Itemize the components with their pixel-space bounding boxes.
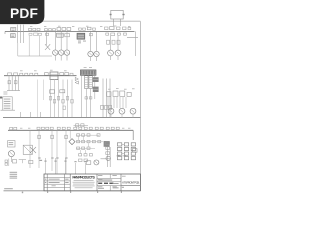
svg-text:KT-5 FRONT PCB.: KT-5 FRONT PCB. — [122, 180, 140, 184]
capacitor C28 below bus C — [76, 124, 79, 127]
transistor Q2 — [53, 50, 58, 55]
resistor R28 — [113, 91, 118, 96]
transistor Q11 — [130, 108, 136, 114]
J3 label specks — [3, 91, 7, 94]
diode D2 — [45, 73, 49, 76]
capacitor C3 — [38, 33, 41, 35]
info cells row lines — [97, 177, 121, 179]
resistor R6 — [53, 29, 56, 31]
logic mesh row 1 — [77, 134, 80, 136]
net tick — [39, 160, 42, 161]
wire M1 down — [10, 157, 12, 162]
Q9-Q11 leads to bus C — [110, 114, 112, 117]
bottom row ticks — [44, 161, 46, 162]
revision table entries — [49, 178, 60, 181]
resistor R42 — [84, 127, 87, 129]
capacitor C9 — [89, 33, 92, 35]
capacitor C12 — [118, 33, 121, 35]
resistor R23 — [105, 105, 108, 109]
resistor R49 — [12, 160, 16, 163]
resistor R2 — [33, 28, 36, 30]
frame bottom-left text — [4, 188, 13, 189]
resistor R43 — [89, 127, 92, 129]
schematic frame border right — [139, 21, 141, 191]
transistor Q9 — [108, 108, 114, 114]
left lower sub-circuit box — [8, 141, 15, 147]
motor M1 (circle) — [8, 151, 14, 157]
U1 label above — [84, 66, 87, 69]
wire drop Q-row 1 — [45, 31, 47, 45]
drawing number bold text — [98, 183, 102, 184]
capacitor C11 — [111, 33, 115, 36]
left sub-circuit wires — [8, 76, 10, 90]
company address lines — [74, 179, 94, 182]
title block bottom ticks — [47, 191, 48, 192]
right cluster labels — [108, 88, 111, 91]
wire column B — [20, 25, 22, 43]
capacitor C14 — [107, 40, 110, 44]
transistor Q4 — [64, 50, 69, 55]
relay K1 — [23, 145, 32, 154]
wire columns to title block — [45, 158, 47, 174]
power bus net VCC (top horizontal bus) — [5, 30, 135, 32]
label box NOTE1 — [11, 28, 16, 32]
J2 side box — [132, 149, 137, 153]
resistor R33 — [37, 127, 40, 129]
resistor R44 — [95, 127, 98, 129]
wire columns right of U1 — [102, 79, 104, 118]
wire drop from C3 cluster — [39, 36, 41, 56]
wire drop from C1 cluster — [28, 36, 30, 56]
column polarity ticks — [38, 158, 40, 159]
capacitor C31 — [51, 135, 54, 138]
resistor R8 — [83, 28, 86, 30]
capacitor C17 — [60, 73, 64, 76]
resistor R36 — [50, 127, 53, 129]
revision narrow column marks — [45, 178, 46, 181]
IC U4 (driver block) — [77, 33, 85, 39]
resistor R39 — [67, 127, 70, 129]
wire drop far right — [135, 31, 137, 56]
capacitor C22 — [53, 99, 55, 103]
capacitor C19 — [8, 81, 11, 84]
capacitor C18 — [65, 73, 69, 76]
wire column C — [23, 25, 25, 43]
resistor R45 — [100, 127, 103, 129]
dark node blob — [104, 141, 110, 147]
resistor R3 — [37, 28, 40, 30]
resistor R31 — [10, 127, 13, 129]
capacitor C13 — [124, 33, 127, 35]
title cell small label — [122, 175, 126, 178]
capacitor C8 — [65, 33, 70, 36]
notes text block — [10, 171, 18, 174]
Q7-Q8 emitter leads — [110, 56, 112, 60]
bottom row capacitor C34 — [5, 160, 8, 162]
bus C stub ticks left — [20, 112, 22, 117]
transistor Q8 — [115, 50, 121, 56]
wire net W2 — [7, 90, 20, 92]
logic mesh row 5 — [79, 159, 82, 162]
capacitor C4 — [57, 28, 61, 31]
J2 grid middle links — [122, 143, 125, 145]
wire net W4 — [101, 158, 111, 160]
resistor R32 — [14, 127, 17, 129]
capacitor C25 — [66, 96, 68, 100]
resistor R10 — [105, 27, 108, 30]
diode D1 — [87, 27, 91, 30]
resistor R25 — [50, 90, 55, 93]
title block outer border — [44, 174, 140, 191]
transistor Q1 (crossed symbol) — [45, 44, 50, 50]
resistor R35 — [46, 127, 49, 129]
capacitor C24 — [62, 99, 64, 103]
capacitor C7 — [46, 33, 49, 35]
diode bridge D4 (diamond) — [69, 139, 75, 145]
bus label text specks top — [30, 25, 32, 28]
P1 left pin tick — [110, 14, 112, 15]
resistor R41 — [79, 127, 82, 129]
svg-text:FAN PRODUCTS: FAN PRODUCTS — [72, 176, 95, 180]
resistor R22 — [101, 105, 104, 109]
wire columns right of mesh — [107, 147, 109, 167]
resistor R4 — [45, 29, 48, 31]
title block vertical divider 4 — [96, 174, 98, 191]
connector J3 (left header with pin labels) — [3, 97, 12, 110]
resistor R7 — [79, 28, 82, 30]
wire column A — [17, 25, 19, 43]
off-page connector box P1 — [111, 10, 123, 19]
bus D corner drop right — [132, 130, 134, 140]
frame tick left edge — [0, 97, 2, 99]
resistor R50 — [29, 160, 33, 163]
resistor R21 — [70, 73, 73, 75]
bus stub left — [4, 31, 6, 34]
logic mesh row 3 — [77, 147, 80, 149]
resistor R48 — [116, 127, 119, 129]
diode D3 (cross) — [30, 147, 36, 153]
title block vertical divider 2 — [63, 174, 65, 191]
capacitor C20 — [14, 81, 17, 84]
page background — [0, 0, 149, 198]
transistor Q10 — [119, 108, 125, 114]
wire net W3 — [74, 124, 89, 126]
resistor R11 — [110, 27, 114, 30]
faint left columns — [37, 80, 39, 118]
mesh vertical stubs — [77, 137, 79, 141]
Q5-Q6 emitter leads — [90, 57, 92, 61]
resistor R17 — [20, 73, 23, 75]
resistor array RN1 (striped column) — [85, 76, 88, 89]
IC U7 (dark block) — [93, 87, 99, 92]
wire drop Q-row 3 — [90, 31, 92, 51]
wire drop Q-row 4 — [110, 36, 112, 50]
logic mesh row 2 — [77, 140, 80, 142]
transistor Q7 — [108, 50, 114, 56]
resistor R24 — [109, 105, 112, 109]
mesh connecting wires — [76, 134, 99, 136]
resistor R40 — [74, 127, 77, 129]
capacitor C29 below bus C — [81, 124, 84, 127]
bus net B (second horizontal bus) — [4, 75, 77, 77]
transistor Q3 — [59, 50, 64, 55]
resistor R37 — [57, 127, 60, 129]
capacitor C2 — [34, 33, 38, 36]
bus net C (long horizontal bus) — [3, 116, 140, 118]
resistor R16 — [14, 73, 18, 76]
resistor R27 — [107, 92, 111, 97]
section2 label specks — [20, 69, 23, 72]
resistor R38 — [62, 127, 65, 129]
wire from J3 — [1, 109, 16, 111]
resistor R18 — [25, 73, 28, 75]
capacitor C1 — [29, 33, 32, 35]
info cell small labels — [98, 174, 102, 177]
resistor R5 — [49, 29, 52, 31]
transistor Q12 — [106, 156, 110, 160]
resistor R46 — [106, 127, 109, 129]
resistor R14 — [128, 27, 131, 29]
capacitor C10 — [106, 33, 109, 35]
PDF badge — [0, 0, 44, 24]
capacitor C33 — [86, 161, 91, 165]
transistor Q6 — [94, 51, 99, 56]
capacitor C5 — [62, 28, 66, 31]
resistor R15 — [8, 73, 12, 76]
resistor array RN2 (striped column) — [89, 76, 92, 89]
schematic frame border top — [6, 20, 140, 22]
connector J2 pin grid — [117, 143, 121, 146]
P1 right pin tick — [122, 14, 124, 15]
capacitor C32 — [65, 135, 68, 138]
wire drop Q-row 2 — [54, 31, 56, 50]
title block vertical divider 5 — [120, 174, 122, 191]
bus net D (third horizontal bus) — [8, 129, 133, 131]
capacitor C30 — [38, 135, 41, 138]
title cell lower tick — [122, 186, 124, 189]
capacitor C26 — [71, 99, 73, 103]
transistor Q5 — [88, 51, 93, 56]
Q2-Q4 emitter leads — [54, 55, 56, 60]
resistor R20 — [35, 73, 38, 75]
wire from P1 into sheet — [113, 19, 115, 26]
revision table row lines — [44, 177, 70, 179]
info cell vertical sub-divider top — [109, 174, 111, 178]
info cell vertical sub-divider bottom — [109, 186, 111, 191]
capacitor C21 — [49, 96, 51, 100]
title block vertical divider 3 — [69, 174, 71, 191]
capacitor C27 — [63, 106, 65, 110]
resistor R9 — [93, 28, 96, 30]
J2 left pins — [106, 142, 110, 145]
wire net W1 — [18, 55, 52, 57]
wire corner net — [19, 159, 26, 161]
resistor R19 — [30, 73, 33, 75]
resistor R47 — [111, 127, 114, 129]
bus D label specks — [20, 127, 22, 130]
schematic frame border bottom — [4, 190, 141, 192]
title cell divider tick — [121, 185, 140, 187]
resistor R26 — [60, 90, 65, 93]
resistor R30 — [127, 92, 131, 96]
middle wire columns to bus C — [50, 80, 52, 118]
title block vertical divider 1 — [46, 174, 48, 191]
capacitor C16 — [117, 40, 120, 44]
wire jumper right — [127, 37, 138, 39]
RN termination boxes — [85, 97, 88, 99]
sheet cell text — [113, 182, 119, 185]
diode pair D5 on left vertical — [75, 77, 78, 80]
frame bottom tick — [22, 192, 23, 194]
section3 wire columns — [29, 130, 31, 168]
transistor Q13 — [94, 160, 99, 165]
resistor R13 — [123, 27, 126, 30]
mesh left edge wire — [69, 131, 71, 139]
capacitor C6 — [67, 28, 71, 31]
resistor R1 — [29, 28, 32, 30]
resistor R29 — [120, 91, 125, 96]
IC U3 (small regulator) — [57, 33, 64, 37]
resistor R34 — [41, 127, 44, 129]
mesh extra box row2 right — [97, 134, 100, 136]
resistor R12 — [117, 27, 120, 30]
right cluster wires — [107, 97, 109, 108]
IC U1 (main controller, pin-striped block) — [80, 70, 96, 75]
U4 label text — [78, 40, 81, 43]
capacitor C23 — [57, 96, 59, 100]
IC U5 (hatched box) — [50, 72, 58, 80]
net label specks right — [117, 154, 120, 157]
label box NOTE2 — [11, 34, 16, 38]
capacitor C15 — [112, 40, 115, 44]
svg-text:PDF: PDF — [10, 6, 38, 21]
logic mesh row 4 — [79, 154, 82, 156]
wire drops under U1 — [81, 75, 83, 117]
IC U6 (dark block) — [93, 77, 99, 82]
